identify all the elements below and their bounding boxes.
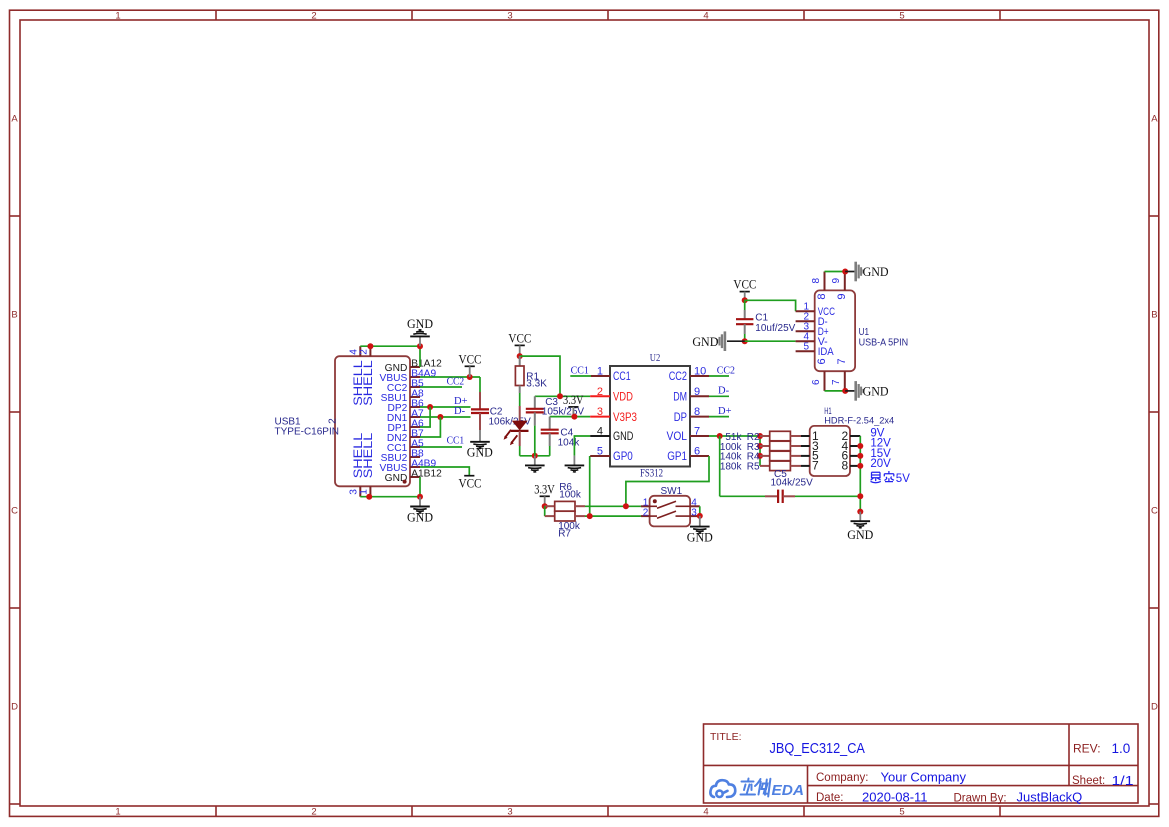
wire CC1 stub — [420, 446, 462, 448]
svg-text:GP0: GP0 — [613, 449, 633, 463]
svg-text:10: 10 — [694, 366, 706, 378]
svg-text:D-: D- — [454, 406, 466, 417]
ground flag rail — [525, 456, 545, 472]
header H1 body — [810, 426, 850, 476]
junction VCC/R1 — [517, 353, 523, 359]
junction H1 pin6 — [857, 453, 863, 459]
junction D+ — [427, 404, 433, 410]
svg-text:SW1: SW1 — [661, 486, 683, 497]
junction 3.3V/R6 — [542, 503, 548, 509]
junction rail/C3 — [532, 453, 538, 459]
svg-text:GND: GND — [692, 335, 718, 349]
junction gnd bottom — [417, 494, 423, 500]
switch SW1 body — [650, 486, 691, 527]
ruler tick top 4 — [803, 10, 805, 20]
svg-text:5V: 5V — [896, 473, 910, 485]
net label 悬空5V (drawn strokes + 5V) — [871, 471, 895, 483]
svg-text:USB-A 5PIN: USB-A 5PIN — [859, 338, 909, 349]
svg-text:2: 2 — [597, 386, 603, 398]
svg-text:A: A — [11, 114, 18, 125]
svg-text:3: 3 — [597, 406, 603, 418]
svg-text:CC1: CC1 — [613, 369, 631, 383]
wire D- (DN1) — [420, 416, 471, 418]
svg-text:VCC: VCC — [459, 352, 482, 366]
ground flag pin4 — [565, 456, 585, 472]
resistor R2 — [725, 431, 801, 443]
ruler tick right B/C — [1149, 411, 1159, 413]
svg-text:9: 9 — [831, 278, 842, 284]
svg-text:CC1: CC1 — [447, 436, 465, 447]
H1 pin 1 — [801, 435, 810, 437]
power flag 3.3V (U2 V3P3) — [563, 393, 584, 417]
svg-text:GND: GND — [467, 446, 493, 460]
ruler tick top 3 — [607, 10, 609, 20]
svg-text:TITLE:: TITLE: — [710, 732, 742, 743]
svg-text:VCC: VCC — [508, 331, 531, 345]
svg-text:3.3V: 3.3V — [534, 482, 555, 496]
USB1 pin B5 — [410, 386, 420, 388]
ruler tick left B/C — [10, 411, 21, 413]
svg-text:3.3K: 3.3K — [526, 379, 547, 390]
svg-text:2: 2 — [327, 418, 338, 424]
USB1 pin B4A9 — [410, 376, 420, 378]
svg-text:D: D — [1151, 702, 1158, 713]
wire DP stub — [709, 416, 729, 418]
svg-text:1: 1 — [115, 11, 120, 22]
svg-text:1.0: 1.0 — [1112, 741, 1131, 756]
SW1 pin 3 — [690, 515, 700, 517]
wire GP1 route to SW1 — [626, 456, 709, 506]
svg-text:VCC: VCC — [733, 278, 756, 292]
wire bottom rail — [520, 455, 550, 457]
power flag VCC (above R1) — [508, 331, 531, 356]
wire D+ (DP2) — [420, 406, 471, 408]
title block row divider 2 — [808, 785, 1139, 787]
wire shell bottom — [360, 496, 420, 498]
capacitor C2 — [471, 377, 531, 430]
svg-text:3.3V: 3.3V — [563, 393, 584, 407]
svg-text:7: 7 — [812, 459, 819, 473]
svg-text:GND: GND — [407, 510, 433, 524]
svg-text:Company:: Company: — [816, 772, 868, 784]
U1 pin 9 (top) — [844, 272, 846, 291]
U1 pin 3 D+ — [796, 330, 815, 332]
USB1 pin B7 — [410, 436, 420, 438]
svg-text:JBQ_EC312_CA: JBQ_EC312_CA — [770, 740, 865, 757]
USB1 pin B1A12 — [410, 366, 420, 368]
USB1 shell pin 3 — [359, 486, 361, 496]
svg-text:8: 8 — [694, 406, 700, 418]
H1 pin 3 — [801, 445, 810, 447]
wire VBUS A4B9 to VCC — [420, 467, 469, 476]
svg-text:7: 7 — [694, 426, 700, 438]
H1 pin 8 — [850, 465, 860, 467]
wire U1 top shell — [825, 271, 846, 273]
junction V3P3 — [571, 414, 577, 420]
U2 pin 10 CC2 — [690, 375, 709, 377]
svg-text:CC1: CC1 — [571, 365, 589, 376]
junction VOL — [717, 433, 723, 439]
svg-text:6: 6 — [694, 446, 700, 458]
LED D1 — [504, 406, 529, 446]
junction R2 left — [757, 433, 763, 439]
svg-text:Date:: Date: — [816, 792, 844, 804]
wire VCC to U1 pin1 — [745, 300, 796, 311]
ruler tick bottom 2 — [411, 806, 413, 816]
svg-text:DP: DP — [674, 410, 687, 424]
H1 pin 7 — [801, 465, 810, 467]
svg-text:8: 8 — [842, 459, 849, 473]
ground flag C1 (sideways left) — [692, 331, 744, 351]
title block rev/sheet divider — [1068, 724, 1070, 786]
svg-text:VOL: VOL — [667, 429, 688, 443]
ruler tick top 2 — [411, 10, 413, 20]
svg-text:104k: 104k — [558, 437, 581, 448]
svg-text:EDA: EDA — [772, 782, 805, 799]
svg-text:GND: GND — [863, 265, 889, 279]
resistor R6 — [545, 482, 585, 511]
svg-text:180k: 180k — [720, 462, 743, 473]
U2 pin 8 DP — [690, 416, 709, 418]
svg-text:DM: DM — [673, 390, 687, 404]
svg-text:U1: U1 — [859, 327, 870, 338]
svg-text:TYPE-C16PIN: TYPE-C16PIN — [275, 426, 339, 437]
junction shell bottom — [366, 494, 372, 500]
svg-text:D: D — [11, 702, 18, 713]
power flag VCC (USB top) — [459, 352, 482, 377]
H1 pin 4 — [850, 445, 860, 447]
svg-text:R5: R5 — [747, 462, 760, 473]
wire DP1 link — [420, 407, 430, 427]
wire DM stub — [709, 395, 729, 397]
wire R6 link — [544, 506, 546, 516]
wire GND pin4 — [574, 436, 590, 456]
ruler tick bottom 3 — [607, 806, 609, 816]
svg-text:5: 5 — [899, 807, 904, 818]
junction U1 top — [842, 269, 848, 275]
resistor R1 — [515, 356, 547, 393]
svg-text:104k/25V: 104k/25V — [771, 477, 814, 488]
wire R7 to SW1 pin2 — [585, 515, 641, 517]
ruler tick left C/D — [10, 607, 21, 609]
junction U1 bottom — [842, 388, 848, 394]
logo LCEDA cloud — [710, 780, 735, 797]
junction H1 pin4 — [857, 443, 863, 449]
junction gnd H1 — [857, 509, 863, 515]
wire VBUS B4A9 to C2 — [420, 376, 480, 378]
USB1 shell pin 2 — [369, 346, 371, 356]
wire gnd bottom drop — [419, 477, 421, 497]
ruler tick top 1 — [215, 10, 217, 20]
wire GP0 drop — [589, 456, 591, 516]
wire VDD row — [535, 395, 590, 397]
title block outline — [704, 724, 1139, 803]
svg-text:CC2: CC2 — [669, 369, 688, 383]
wire R1 to LED — [519, 393, 521, 406]
svg-text:C: C — [1151, 506, 1158, 517]
svg-text:A: A — [1151, 114, 1158, 125]
ruler tick left D end — [10, 803, 21, 805]
wire H1 right bus — [859, 436, 861, 512]
junction VDD — [557, 393, 563, 399]
wire C5 rail right — [795, 495, 860, 497]
power flag 3.3V (R6) — [534, 482, 555, 506]
connector U1 body — [815, 290, 855, 371]
wire LED to rail — [519, 446, 521, 456]
ground flag H1 — [847, 512, 873, 542]
svg-text:5: 5 — [899, 11, 904, 22]
wire gnd top drop — [419, 346, 421, 367]
ground flag GND under C2 — [467, 430, 493, 460]
svg-text:HDR-F-2.54_2x4: HDR-F-2.54_2x4 — [824, 415, 894, 426]
capacitor C4 — [541, 417, 581, 456]
USB1 pin A6 — [410, 426, 420, 428]
U2 pin 7 VOL — [690, 435, 709, 437]
U1 pin 6 (bottom) — [824, 371, 826, 391]
USB1 pin B8 — [410, 456, 420, 458]
ruler tick right C/D — [1149, 607, 1159, 609]
U2 pin 3 V3P3 — [590, 416, 610, 418]
SW1 pin 1 — [641, 505, 650, 507]
svg-text:3: 3 — [507, 11, 512, 22]
svg-text:9: 9 — [694, 386, 700, 398]
wire V3P3 row — [550, 416, 591, 418]
wire VOL row — [709, 435, 760, 437]
U2 pin 2 VDD — [590, 395, 610, 397]
USB1 pin B6 — [410, 406, 420, 408]
connector USB1 body — [335, 356, 410, 486]
junction VCC tap — [467, 374, 473, 380]
svg-text:4: 4 — [597, 426, 603, 438]
svg-text:SHELL: SHELL — [361, 432, 375, 478]
svg-text:C: C — [11, 506, 18, 517]
svg-text:2: 2 — [311, 11, 316, 22]
logo text 立创 (drawn strokes) — [741, 779, 771, 797]
svg-text:2: 2 — [358, 349, 369, 355]
ruler tick right D end — [1149, 803, 1159, 805]
junction SW1 gnd — [697, 513, 703, 519]
junction gnd top — [417, 343, 423, 349]
wire resistor-left bus — [759, 436, 761, 466]
svg-text:GND: GND — [407, 317, 433, 331]
H1 pin 6 — [850, 455, 860, 457]
ground flag SW1 — [687, 516, 713, 545]
junction GP0/R7 — [587, 513, 593, 519]
svg-text:R7: R7 — [558, 528, 571, 539]
wire CC2 stub (U2 right) — [709, 375, 729, 377]
title block logo cell divider — [807, 765, 809, 803]
U1 pin 2 D- — [796, 320, 815, 322]
wire DN2 link — [420, 417, 440, 437]
U1 pin 1 VCC — [796, 310, 815, 312]
svg-text:7: 7 — [836, 358, 848, 364]
svg-text:A1B12: A1B12 — [411, 468, 442, 479]
svg-text:GND: GND — [863, 385, 889, 399]
wire SW1 pin4 to pin3 — [699, 506, 701, 516]
ruler tick top 5 — [999, 10, 1001, 20]
svg-text:Drawn By:: Drawn By: — [954, 793, 1007, 805]
svg-text:CC2: CC2 — [717, 365, 735, 376]
svg-text:5: 5 — [803, 341, 809, 352]
U2 pin 4 GND — [590, 435, 610, 437]
USB1 pin A7 — [410, 416, 420, 418]
svg-text:VDD: VDD — [613, 390, 633, 404]
resistor R7 — [545, 511, 585, 539]
svg-text:6: 6 — [816, 358, 828, 364]
junction VCC/C1 — [742, 297, 748, 303]
op-chip U2 body — [610, 366, 690, 467]
svg-text:4: 4 — [703, 11, 708, 22]
svg-text:8: 8 — [816, 294, 828, 300]
svg-text:3: 3 — [691, 507, 697, 518]
wire U1 bottom shell — [825, 390, 846, 392]
power flag VCC (inverted) — [459, 476, 482, 491]
USB1 pin A1B12 — [410, 476, 420, 478]
ground flag GND top (inverted) — [407, 317, 433, 346]
U2 pin 1 CC1 — [591, 375, 610, 377]
U2 pin 5 GP0 — [590, 455, 610, 457]
svg-text:1: 1 — [358, 489, 369, 495]
svg-text:1: 1 — [115, 807, 120, 818]
capacitor C5 (horizontal) — [765, 469, 813, 503]
wire V- row — [745, 340, 796, 342]
junction shell top — [367, 343, 373, 349]
svg-text:B: B — [1151, 310, 1157, 321]
svg-text:8: 8 — [811, 278, 822, 284]
svg-text:GND: GND — [613, 429, 634, 443]
USB1 anchor dot — [403, 480, 407, 484]
USB1 shell pin 1 — [369, 486, 371, 496]
wire shell top — [360, 345, 420, 347]
ruler tick bottom 5 — [999, 806, 1001, 816]
ground flag U1 top (sideways) — [845, 262, 888, 282]
svg-text:1: 1 — [597, 366, 603, 378]
junction R4 left — [757, 453, 763, 459]
svg-text:IDA: IDA — [818, 346, 835, 358]
USB1 pin A5 — [410, 446, 420, 448]
svg-text:U2: U2 — [650, 352, 661, 364]
wire VOL drop to C5 rail — [719, 436, 721, 496]
svg-text:20V: 20V — [870, 458, 891, 470]
wire CC2 stub — [420, 386, 462, 388]
USB1 pin A8 — [410, 396, 420, 398]
svg-text:GP1: GP1 — [667, 449, 687, 463]
svg-text:4: 4 — [703, 807, 708, 818]
svg-text:2020-08-11: 2020-08-11 — [862, 790, 928, 805]
svg-text:Your Company: Your Company — [881, 770, 967, 785]
svg-text:100k: 100k — [559, 489, 582, 500]
svg-text:GND: GND — [687, 531, 713, 545]
svg-text:7: 7 — [831, 379, 842, 385]
SW1 pin 2 — [641, 515, 650, 517]
U1 pin 5 IDA — [796, 350, 815, 352]
wire VCC to VDD branch — [520, 356, 560, 396]
wire C5 rail left — [720, 495, 765, 497]
resistor R4 — [720, 451, 801, 463]
svg-text:REV:: REV: — [1073, 741, 1101, 755]
U2 pin 6 GP1 — [690, 455, 709, 457]
ground flag GND bottom — [407, 497, 433, 525]
capacitor C3 — [526, 396, 585, 456]
wire CC1 stub (U2) — [570, 375, 591, 377]
ground flag U1 bottom (sideways) — [845, 381, 888, 401]
junction R3 left — [757, 443, 763, 449]
svg-text:B: B — [11, 310, 17, 321]
ruler tick bottom 4 — [803, 806, 805, 816]
resistor R3 — [720, 441, 801, 453]
U2 pin 9 DM — [690, 395, 709, 397]
svg-text:V3P3: V3P3 — [613, 410, 637, 424]
svg-text:CC2: CC2 — [447, 376, 465, 387]
SW1 pin 4 — [690, 505, 700, 507]
USB1 pin A4B9 — [410, 466, 420, 468]
U1 pin 7 (bottom) — [844, 371, 846, 391]
H1 pin 2 — [850, 435, 860, 437]
capacitor C1 — [736, 300, 796, 341]
junction GP1/SW1 — [623, 503, 629, 509]
H1 pin 5 — [801, 455, 810, 457]
ruler tick right A/B — [1149, 215, 1159, 217]
svg-text:1/1: 1/1 — [1112, 773, 1134, 788]
title block row divider 1 — [704, 764, 1139, 766]
ruler tick bottom 1 — [215, 806, 217, 816]
junction H1 pin8 — [857, 463, 863, 469]
resistor R5 — [720, 461, 801, 473]
svg-text:6: 6 — [811, 379, 822, 385]
svg-text:GND: GND — [847, 528, 873, 542]
svg-text:VCC: VCC — [459, 476, 482, 490]
USB1 shell pin 4 — [359, 346, 361, 356]
svg-text:5: 5 — [597, 446, 603, 458]
svg-text:D-: D- — [718, 386, 730, 397]
ruler tick left A/B — [10, 215, 21, 217]
U1 pin 4 V- — [796, 340, 815, 342]
svg-text:FS312: FS312 — [640, 467, 663, 479]
svg-text:Sheet:: Sheet: — [1072, 775, 1105, 787]
junction C5/H1 bus — [857, 493, 863, 499]
svg-text:2: 2 — [643, 508, 649, 519]
U1 pin 8 (top) — [824, 272, 826, 291]
power flag VCC (C1) — [733, 278, 756, 301]
junction C1/V- — [742, 338, 748, 344]
svg-text:SHELL: SHELL — [361, 360, 375, 406]
junction D- — [437, 414, 443, 420]
wire R6 to SW1 pin1 — [585, 505, 641, 507]
svg-text:9: 9 — [836, 294, 848, 300]
svg-text:D+: D+ — [718, 406, 732, 417]
svg-text:JustBlackQ: JustBlackQ — [1017, 790, 1083, 805]
svg-text:2: 2 — [311, 807, 316, 818]
svg-text:10uf/25V: 10uf/25V — [755, 323, 795, 334]
svg-text:3: 3 — [507, 807, 512, 818]
